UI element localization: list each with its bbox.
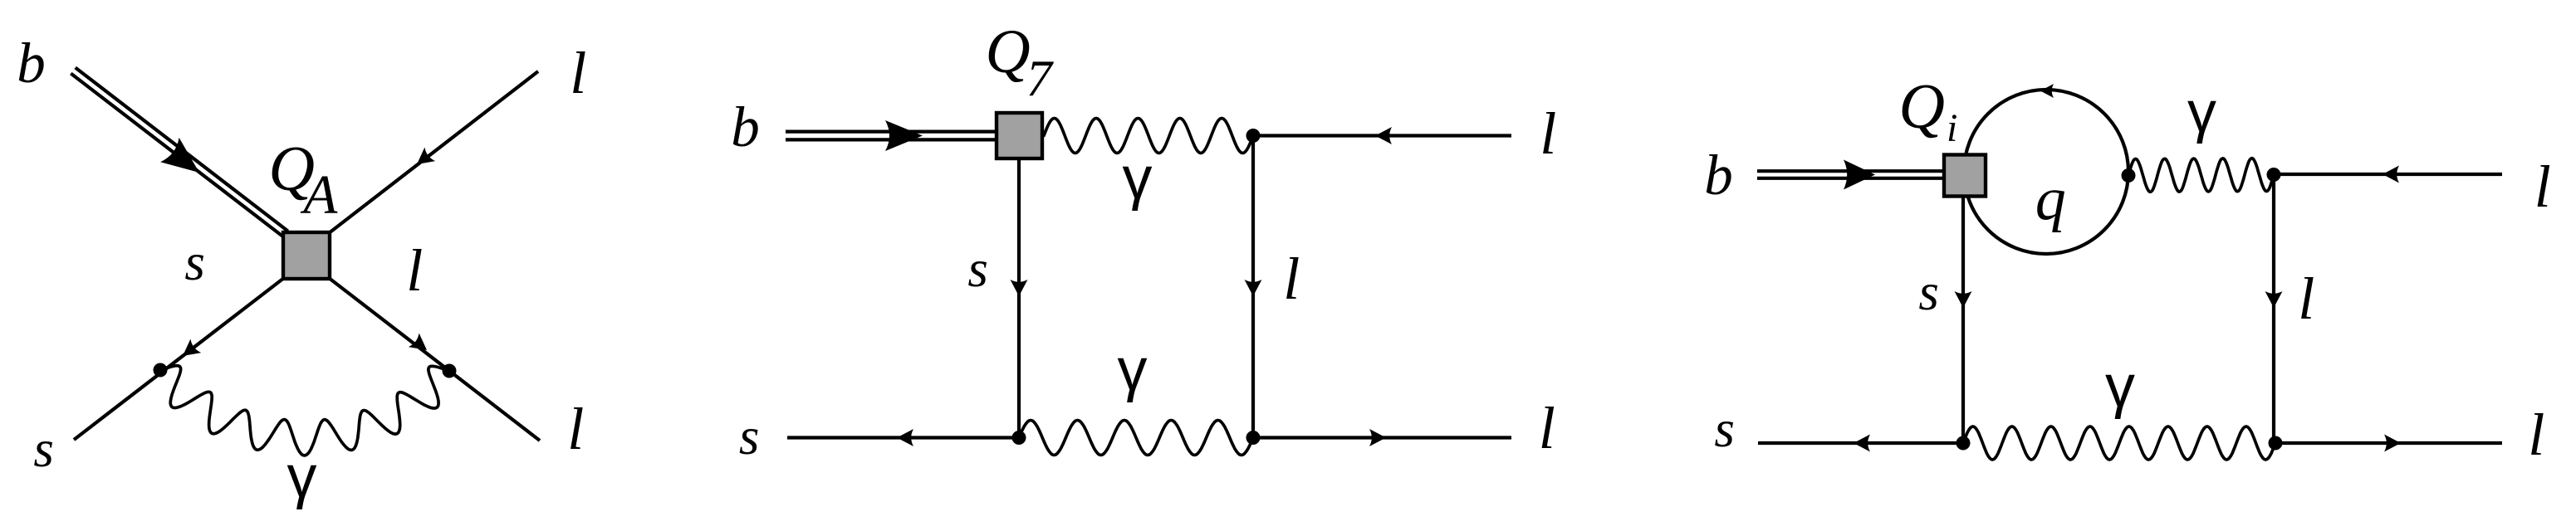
operator vertex box Q_A (diagram 1): [283, 232, 330, 279]
svg-text:s: s: [184, 233, 205, 291]
label gamma top photon (diagram 3): [2187, 79, 2216, 144]
label l top-right (diagram 1): [570, 40, 586, 106]
outgoing s-quark line bottom-left (diagram 2): [787, 436, 1019, 439]
svg-text:Q: Q: [986, 17, 1031, 86]
arrow on l vertical line (diagram 3): [2265, 291, 2283, 308]
junction dot bottom-right photon (diagram 2): [1246, 431, 1261, 445]
svg-text:l: l: [1539, 395, 1555, 461]
label b (diagram 2): [731, 95, 760, 158]
junction dot top (diagram 2): [1246, 129, 1261, 143]
svg-text:s: s: [739, 407, 760, 465]
label gamma bottom photon (diagram 3): [2105, 353, 2135, 420]
photon vertex dot on l leg (diagram 1): [443, 364, 457, 378]
photon gamma arc between s and l legs (diagram 1): [160, 366, 449, 455]
label l bottom-right (diagram 2): [1539, 395, 1555, 461]
label l bottom-right (diagram 1): [567, 396, 584, 462]
outgoing lepton line l bottom-right (diagram 1): [329, 278, 540, 441]
svg-text:b: b: [731, 95, 760, 158]
svg-text:q: q: [2035, 165, 2066, 233]
svg-text:l: l: [2528, 402, 2544, 468]
label b (diagram 1): [17, 32, 46, 95]
label q inside loop (diagram 3): [2035, 165, 2066, 233]
operator vertex box Q_7 (diagram 2): [997, 113, 1042, 158]
b-quark incoming double line (diagram 2): [786, 132, 995, 140]
photon gamma bottom (diagram 2): [1019, 421, 1253, 455]
junction dot bottom-left photon (diagram 3): [1956, 436, 1971, 451]
svg-text:l: l: [406, 237, 423, 304]
incoming lepton line top-right (diagram 3): [2274, 173, 2502, 176]
arrow on b-quark line (diagram 2): [885, 120, 923, 151]
photon gamma top (diagram 2): [1044, 119, 1253, 153]
label s bottom-left (diagram 3): [1714, 400, 1735, 458]
outgoing lepton line bottom-right (diagram 2): [1253, 436, 1511, 439]
svg-text:s: s: [33, 420, 54, 478]
junction dot bottom-right photon (diagram 3): [2269, 436, 2283, 451]
label gamma top photon (diagram 2): [1123, 145, 1153, 212]
svg-text:Q: Q: [1898, 71, 1945, 142]
photon vertex dot on loop (diagram 3): [2122, 168, 2136, 183]
svg-text:7: 7: [1026, 51, 1055, 108]
svg-text:l: l: [1283, 246, 1300, 312]
svg-text:b: b: [1704, 144, 1733, 207]
junction dot bottom-left photon (diagram 2): [1012, 431, 1026, 445]
outgoing s-quark line bottom-left (diagram 1): [74, 278, 284, 440]
incoming lepton line l top-right (diagram 1): [329, 71, 538, 233]
b-quark incoming double line (diagram 3): [1757, 171, 1942, 178]
arrow on bottom-left s line (diagram 3): [1854, 435, 1870, 452]
arrow on bottom-right lepton line (diagram 3): [2384, 435, 2401, 452]
b-quark incoming double line (diagram 1): [71, 68, 287, 237]
operator vertex box Q_i (diagram 3): [1944, 155, 1986, 197]
label s on vertical line (diagram 2): [967, 240, 988, 298]
lepton vertical line l (diagram 3): [2272, 175, 2275, 444]
label l top-right (diagram 2): [1540, 100, 1556, 167]
svg-text:b: b: [17, 32, 46, 95]
incoming lepton line top-right (diagram 2): [1253, 134, 1511, 137]
photon gamma bottom (diagram 3): [1963, 426, 2275, 460]
svg-text:l: l: [1540, 100, 1556, 167]
svg-text:A: A: [300, 163, 338, 225]
svg-text:γ: γ: [287, 444, 317, 510]
arrow on bottom-left s line (diagram 2): [897, 429, 913, 446]
label s bottom-left (diagram 2): [739, 407, 760, 465]
svg-text:γ: γ: [1118, 337, 1148, 403]
photon vertex dot on s leg (diagram 1): [154, 363, 168, 378]
label s near vertex (diagram 1): [184, 233, 205, 291]
svg-text:l: l: [570, 40, 586, 106]
label s bottom-left (diagram 1): [33, 420, 54, 478]
svg-text:l: l: [2534, 153, 2551, 220]
arrow on s-quark line (diagram 1): [183, 339, 201, 357]
label Q_A (diagram 1): [268, 133, 338, 226]
s-quark vertical line (diagram 3): [1961, 197, 1965, 443]
arrow on top-right lepton line (diagram 3): [2383, 166, 2399, 183]
outgoing s-quark line bottom-left (diagram 3): [1758, 441, 1963, 445]
svg-text:s: s: [967, 240, 988, 298]
arrow on quark loop (diagram 3): [2040, 84, 2054, 98]
svg-text:γ: γ: [2105, 353, 2135, 420]
svg-text:i: i: [1947, 106, 1957, 150]
label l near vertex (diagram 1): [406, 237, 423, 304]
quark loop circle (diagram 3): [1964, 90, 2128, 254]
svg-text:γ: γ: [2187, 79, 2216, 144]
label Q_7 (diagram 2): [986, 17, 1055, 108]
arrow on top-right lepton line (diagram 1): [417, 148, 435, 165]
label b (diagram 3): [1704, 144, 1733, 207]
outgoing lepton line bottom-right (diagram 3): [2275, 441, 2502, 445]
arrow on bottom-right lepton line (diagram 1): [409, 334, 427, 351]
label l on vertical line (diagram 3): [2298, 265, 2314, 332]
label s on vertical line (diagram 3): [1918, 263, 1939, 321]
label l top-right (diagram 3): [2534, 153, 2551, 220]
arrow on bottom-right lepton line (diagram 2): [1369, 429, 1386, 446]
arrow on l vertical line (diagram 2): [1245, 280, 1262, 296]
svg-text:l: l: [2298, 265, 2314, 332]
arrow on s vertical line (diagram 2): [1011, 280, 1028, 296]
lepton vertical line l (diagram 2): [1251, 136, 1255, 438]
arrow on top-right lepton line (diagram 2): [1375, 127, 1392, 144]
label gamma bottom photon (diagram 2): [1118, 337, 1148, 403]
arrow on b-quark line (diagram 1): [160, 138, 199, 173]
s-quark vertical line (diagram 2): [1017, 158, 1021, 438]
label gamma photon (diagram 1): [287, 444, 317, 510]
svg-text:γ: γ: [1123, 145, 1153, 212]
label Q_i (diagram 3): [1898, 71, 1957, 150]
svg-text:s: s: [1714, 400, 1735, 458]
svg-text:l: l: [567, 396, 584, 462]
svg-text:s: s: [1918, 263, 1939, 321]
arrow on s vertical line (diagram 3): [1955, 291, 1972, 308]
label l on vertical line (diagram 2): [1283, 246, 1300, 312]
arrow on b-quark line (diagram 3): [1844, 160, 1875, 190]
photon gamma from loop to lepton line (diagram 3): [2128, 158, 2274, 192]
junction dot top (diagram 3): [2267, 168, 2281, 182]
label l bottom-right (diagram 3): [2528, 402, 2544, 468]
